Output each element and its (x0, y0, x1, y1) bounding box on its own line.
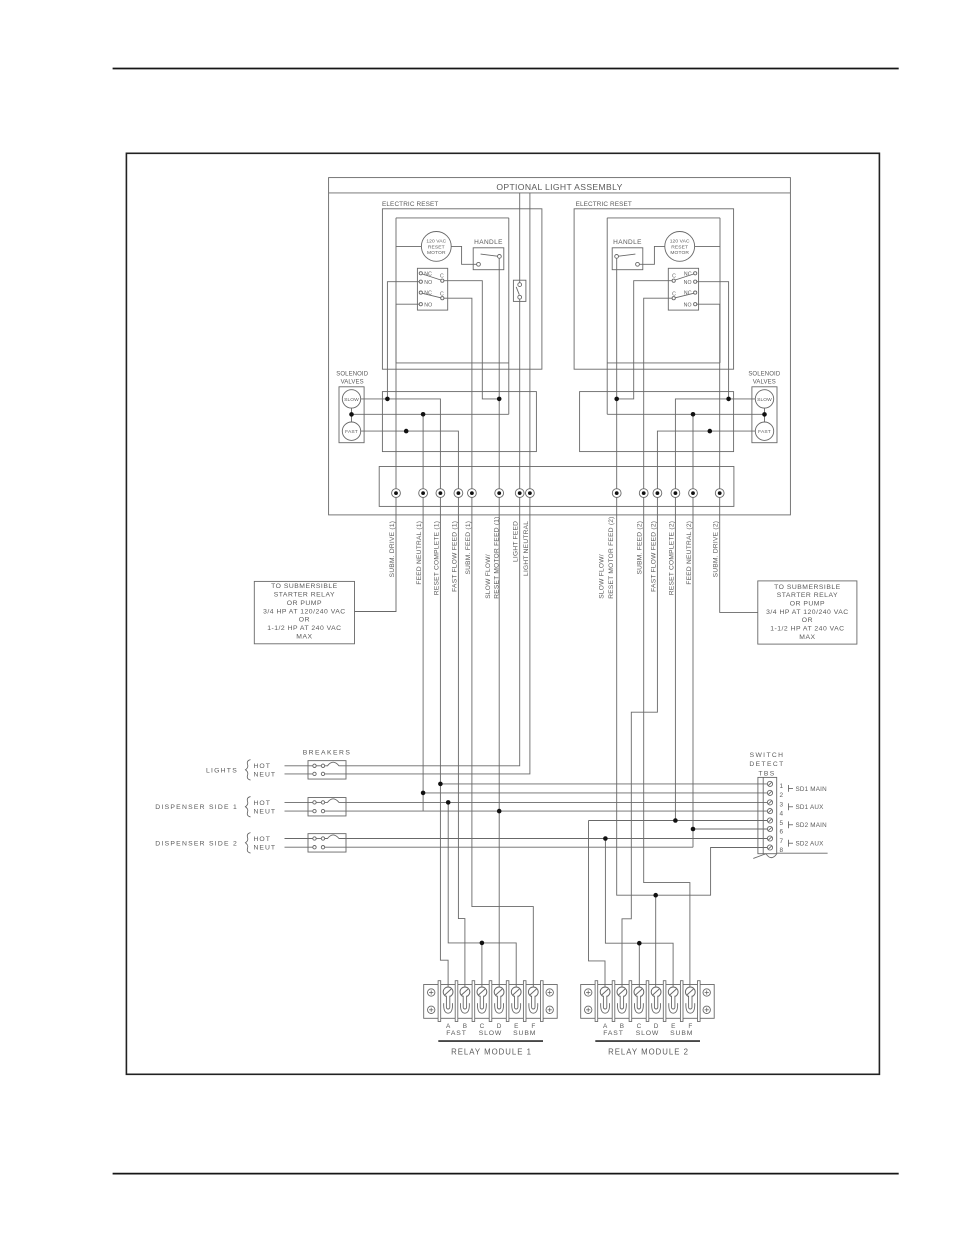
svg-text:HOT: HOT (254, 763, 271, 770)
svg-text:SLOW: SLOW (636, 1030, 659, 1037)
wire SUBM DRIVE (1) to starter relay note (355, 498, 397, 612)
junction dots assembly (385, 397, 390, 402)
wire valve common 2 to motor loop 2 (607, 413, 764, 415)
svg-text:RESET: RESET (671, 244, 688, 250)
wire LIGHT FEED drop from assembly title bar (519, 193, 521, 283)
electric reset box 1 (382, 209, 542, 369)
terminal at x=396.0 (392, 489, 401, 498)
svg-text:SD2 MAIN: SD2 MAIN (796, 822, 828, 829)
svg-text:DISPENSER SIDE 2: DISPENSER SIDE 2 (155, 840, 238, 847)
svg-text:SLOW: SLOW (479, 1030, 502, 1037)
terminal at x=423.1 (419, 489, 428, 498)
relay module 1 terminal D (494, 987, 504, 997)
svg-text:E: E (671, 1023, 675, 1030)
svg-text:HOT: HOT (254, 836, 271, 843)
starter relay note box 1 (254, 581, 354, 643)
TB8 label SD1 AUX (788, 803, 790, 810)
svg-text:A: A (603, 1023, 608, 1030)
svg-text:C: C (480, 1023, 485, 1030)
terminal at x=440.4 (436, 489, 445, 498)
relay module 1 (424, 985, 558, 1019)
svg-text:SUBM: SUBM (513, 1030, 536, 1037)
svg-text:7: 7 (780, 838, 784, 845)
relay module 2 (581, 985, 715, 1019)
wire FEED NEUTRAL (2) to TB8-6 / DS2 neutral (692, 498, 694, 848)
svg-text:LIGHTS: LIGHTS (206, 768, 238, 775)
wire FEED NEUTRAL (1) to TB8-2 / DS1 neutral (422, 498, 424, 812)
svg-text:4: 4 (780, 810, 784, 817)
wire FAST FLOW FEED (2) to relay module 2 B (622, 498, 657, 988)
svg-text:RELAY MODULE 2: RELAY MODULE 2 (608, 1048, 689, 1057)
terminal strip (379, 467, 734, 507)
wire LIGHT FEED to breaker (346, 498, 520, 766)
wire SLOW FLOW/RESET MOTOR FEED (2) to relay module 2 D and TB8-8 (617, 498, 768, 896)
svg-text:SOLENOID: SOLENOID (748, 372, 781, 378)
svg-text:ELECTRIC RESET: ELECTRIC RESET (382, 201, 438, 208)
svg-text:STARTER RELAY: STARTER RELAY (777, 592, 838, 599)
svg-text:SLOW FLOW/: SLOW FLOW/ (598, 554, 605, 599)
svg-text:SD2 AUX: SD2 AUX (796, 841, 825, 848)
terminal at x=675.4 (671, 489, 680, 498)
terminal at x=458.4 (454, 489, 463, 498)
relay module 2 terminal E (668, 987, 678, 997)
svg-text:D: D (497, 1023, 502, 1030)
svg-text:STARTER RELAY: STARTER RELAY (274, 592, 335, 599)
svg-text:1-1/2 HP AT 240 VAC: 1-1/2 HP AT 240 VAC (267, 625, 341, 632)
svg-text:FAST FLOW FEED (1): FAST FLOW FEED (1) (451, 521, 458, 592)
svg-text:BREAKERS: BREAKERS (303, 750, 352, 757)
terminal at x=529.9 (526, 489, 535, 498)
svg-text:FAST FLOW FEED (2): FAST FLOW FEED (2) (650, 521, 657, 592)
light switch (513, 280, 526, 301)
svg-text:2: 2 (780, 792, 784, 799)
wire NO2 contact 2 to SUBM DRIVE (2) (697, 304, 720, 489)
wire RESET COMPLETE (1) to TB8-1 (440, 783, 767, 785)
junction dots lower (438, 782, 443, 787)
terminal at x=693.0 (689, 489, 698, 498)
svg-text:SLOW FLOW/: SLOW FLOW/ (485, 554, 492, 599)
svg-text:SWITCH: SWITCH (750, 752, 785, 759)
TB8 screw 3 (767, 800, 772, 805)
breaker DISPENSER SIDE 2 (308, 834, 346, 852)
svg-text:TO SUBMERSIBLE: TO SUBMERSIBLE (774, 584, 841, 591)
breaker LIGHTS (308, 761, 346, 779)
svg-text:C: C (440, 292, 444, 298)
svg-text:C: C (440, 274, 444, 280)
terminal at x=657.4 (653, 489, 662, 498)
top rule (113, 68, 899, 70)
svg-text:FAST: FAST (345, 429, 358, 435)
wire FEED NEUTRAL (1) drop (422, 414, 424, 489)
svg-text:F: F (531, 1023, 535, 1030)
electric reset box 2 (574, 209, 734, 369)
svg-text:SUBM: SUBM (670, 1030, 693, 1037)
wire LIGHT FEED switch to terminal (519, 299, 521, 489)
wire NO1 contact 1 to junction dot (387, 282, 419, 399)
svg-text:RESET: RESET (428, 244, 445, 250)
svg-text:NEUT: NEUT (254, 845, 277, 852)
TB8 screw 6 (767, 826, 772, 831)
svg-text:SOLENOID: SOLENOID (336, 372, 369, 378)
svg-text:OR PUMP: OR PUMP (287, 600, 322, 607)
svg-text:D: D (654, 1023, 659, 1030)
svg-text:C: C (637, 1023, 642, 1030)
wire C2 contact 2 to SUBM FEED (2) (644, 298, 672, 489)
svg-text:SLOW: SLOW (757, 397, 772, 403)
TB8 screw 5 (767, 818, 772, 823)
TB8 label SD2 AUX (788, 840, 790, 847)
wire DISPENSER SIDE 1 HOT to TB8-3 (346, 801, 767, 803)
terminal at x=643.7 (639, 489, 648, 498)
svg-text:HANDLE: HANDLE (613, 239, 642, 246)
wire handle 1 to junction (SLOW FLOW/RESET MOTOR FEED 1) (498, 258, 500, 489)
svg-text:3/4 HP AT 120/240 VAC: 3/4 HP AT 120/240 VAC (263, 608, 346, 615)
svg-text:SD1 MAIN: SD1 MAIN (796, 786, 828, 793)
terminal at x=519.7 (515, 489, 524, 498)
wire RESET COMPLETE (2) to TB8-5 (674, 498, 676, 821)
TB8 screw 8 (767, 845, 772, 850)
bottom rule (113, 1173, 899, 1175)
TB8 label SD2 MAIN (788, 821, 790, 828)
svg-text:TO SUBMERSIBLE: TO SUBMERSIBLE (271, 583, 338, 590)
terminal at x=471.9 (468, 489, 477, 498)
relay module 1 terminal E (511, 987, 521, 997)
wire DISPENSER SIDE 2 NEUT to FEED NEUTRAL (2) (346, 846, 693, 848)
wire SUBM. FEED (2) to relay module 2 F (644, 498, 690, 988)
svg-text:SUBM. FEED (2): SUBM. FEED (2) (637, 521, 644, 575)
svg-text:NEUT: NEUT (254, 771, 277, 778)
relay module 2 terminal B (617, 987, 627, 997)
120 VAC reset motor 1 (421, 232, 451, 262)
wire FEED NEUTRAL (2) to TB8-6 (693, 828, 767, 830)
wire DISPENSER SIDE 2 HOT to TB8-7 (346, 838, 767, 840)
TB8 screw 2 (767, 790, 772, 795)
svg-text:120 VAC: 120 VAC (426, 239, 446, 245)
terminal at x=499.2 (495, 489, 504, 498)
svg-text:3/4 HP AT 120/240 VAC: 3/4 HP AT 120/240 VAC (766, 609, 849, 616)
svg-text:B: B (620, 1023, 624, 1030)
wire DISPENSER SIDE 2 HOT branch to relay module 2 C and E (605, 839, 673, 988)
relay module 1 terminal A (443, 987, 453, 997)
wire LIGHT NEUTRAL drop (529, 193, 531, 489)
svg-text:NO: NO (424, 302, 432, 308)
relay module 2 terminal A (600, 987, 610, 997)
relay module 1 terminal F (528, 987, 538, 997)
relay module 2 terminal C (634, 987, 644, 997)
svg-text:RESET COMPLETE (2): RESET COMPLETE (2) (668, 521, 675, 595)
contact block 2 (NC/NO contacts) (668, 268, 698, 310)
svg-text:3: 3 (780, 802, 784, 809)
svg-text:E: E (514, 1023, 518, 1030)
wire C1 contact 2 to junction (617, 281, 672, 399)
svg-text:HANDLE: HANDLE (474, 239, 503, 246)
svg-text:B: B (463, 1023, 467, 1030)
wire C1 contact 1 to junction (444, 281, 499, 399)
relay module 2 terminal D (651, 987, 661, 997)
svg-text:FAST: FAST (603, 1030, 623, 1037)
svg-text:MAX: MAX (799, 634, 815, 641)
svg-text:RESET MOTOR FEED (2): RESET MOTOR FEED (2) (608, 516, 615, 598)
wire SUBM DRIVE (2) to starter relay note (720, 498, 758, 613)
TB8 label SD1 MAIN (788, 785, 790, 792)
svg-text:FAST: FAST (446, 1030, 466, 1037)
svg-text:DISPENSER SIDE 1: DISPENSER SIDE 1 (155, 804, 238, 811)
svg-text:RESET COMPLETE (1): RESET COMPLETE (1) (433, 521, 440, 595)
svg-text:A: A (446, 1023, 451, 1030)
wire DISPENSER SIDE 1 HOT branch to relay module 1 C and E (448, 802, 516, 987)
wire FAST valve 1 to FAST FLOW FEED (1) (361, 431, 459, 489)
terminal at x=616.7 (612, 489, 621, 498)
svg-text:SUBM. FEED (1): SUBM. FEED (1) (465, 521, 472, 575)
svg-text:MOTOR: MOTOR (427, 250, 446, 256)
svg-text:MAX: MAX (296, 633, 312, 640)
wire RESET COMPLETE (1) to TB8-1 and relay module 1 A (440, 498, 448, 988)
svg-text:OR: OR (802, 617, 813, 624)
svg-text:5: 5 (780, 820, 784, 827)
svg-text:C: C (672, 292, 676, 298)
svg-text:NO: NO (684, 302, 692, 308)
wire SLOW FLOW/RESET MOTOR FEED (1) to relay module 1 D (498, 498, 500, 988)
svg-text:F: F (688, 1023, 692, 1030)
wire valve common 1 to motor loop 1 (352, 413, 509, 415)
svg-text:NEUT: NEUT (254, 809, 277, 816)
svg-text:SD1 AUX: SD1 AUX (796, 804, 825, 811)
svg-text:MOTOR: MOTOR (670, 250, 689, 256)
svg-text:HOT: HOT (254, 800, 271, 807)
svg-text:SLOW: SLOW (344, 397, 359, 403)
junction box 2 (580, 392, 734, 452)
wire loop motor 1 (396, 217, 509, 219)
wire handle 2 to junction (SLOW FLOW/RESET MOTOR FEED 2) (616, 258, 618, 489)
wire SUBM. FEED (1) to relay module 1 F (472, 498, 533, 988)
svg-text:FAST: FAST (758, 429, 771, 435)
terminal at x=719.7 (715, 489, 724, 498)
outer border (126, 153, 879, 1074)
svg-text:OR PUMP: OR PUMP (790, 601, 825, 608)
wire TB8-5 to relay module 2 A (589, 820, 768, 822)
svg-text:NO: NO (684, 280, 692, 286)
svg-text:120 VAC: 120 VAC (670, 239, 690, 245)
svg-text:1: 1 (780, 783, 784, 790)
wire C2 contact 1 to SUBM FEED (1) (444, 298, 472, 489)
svg-text:FEED NEUTRAL (1): FEED NEUTRAL (1) (416, 521, 423, 585)
TB8 screw 7 (767, 836, 772, 841)
svg-text:C: C (672, 274, 676, 280)
svg-text:FEED NEUTRAL (2): FEED NEUTRAL (2) (686, 521, 693, 585)
svg-text:VALVES: VALVES (753, 380, 776, 386)
svg-text:OR: OR (299, 617, 310, 624)
svg-text:LIGHT FEED: LIGHT FEED (513, 521, 520, 562)
wire LIGHT NEUTRAL to breaker (346, 498, 530, 774)
svg-text:RELAY MODULE 1: RELAY MODULE 1 (451, 1048, 532, 1057)
wire loop motor 2 (607, 217, 720, 219)
svg-text:SUBM. DRIVE (1): SUBM. DRIVE (1) (389, 521, 396, 578)
wire FAST valve 2 to FAST FLOW FEED (2) (657, 431, 755, 489)
svg-text:ELECTRIC RESET: ELECTRIC RESET (576, 201, 632, 208)
svg-text:OPTIONAL LIGHT ASSEMBLY: OPTIONAL LIGHT ASSEMBLY (496, 182, 622, 192)
wire SLOW valve 2 to RESET COMPLETE (2) (675, 399, 755, 489)
svg-text:SUBM. DRIVE (2): SUBM. DRIVE (2) (713, 521, 720, 578)
svg-text:1-1/2 HP AT 240 VAC: 1-1/2 HP AT 240 VAC (770, 626, 844, 633)
junction box 1 (382, 392, 536, 452)
relay module 2 terminal F (685, 987, 695, 997)
svg-text:6: 6 (780, 828, 784, 835)
TB8 screw 1 (767, 781, 772, 786)
TB8 torn edge (753, 854, 766, 859)
breaker DISPENSER SIDE 1 (308, 798, 346, 816)
wire NO2 contact 1 to SUBM DRIVE (1) (396, 304, 419, 489)
starter relay note box 2 (758, 581, 857, 644)
wire DISPENSER SIDE 1 NEUT to TB8-4 (346, 810, 767, 812)
svg-text:VALVES: VALVES (341, 380, 364, 386)
relay module 1 terminal B (460, 987, 470, 997)
svg-text:NO: NO (424, 280, 432, 286)
relay module 1 terminal C (477, 987, 487, 997)
svg-text:DETECT: DETECT (749, 761, 784, 768)
wire SLOW valve 1 to RESET COMPLETE (1) (361, 399, 441, 489)
assembly box OPTIONAL LIGHT ASSEMBLY (329, 178, 791, 515)
wire NO1 contact 2 to junction dot (697, 282, 729, 399)
wire FAST FLOW FEED (1) to relay module 1 B (458, 498, 465, 988)
svg-text:LIGHT NEUTRAL: LIGHT NEUTRAL (523, 521, 530, 576)
120 VAC reset motor 2 (665, 232, 695, 262)
TB8 screw 4 (767, 809, 772, 814)
wire FEED NEUTRAL (1) to TB8-2 (423, 792, 767, 794)
svg-text:TBS: TBS (758, 770, 775, 777)
wire FEED NEUTRAL (2) drop (692, 414, 694, 489)
contact block 1 (NC/NO contacts) (417, 268, 447, 310)
